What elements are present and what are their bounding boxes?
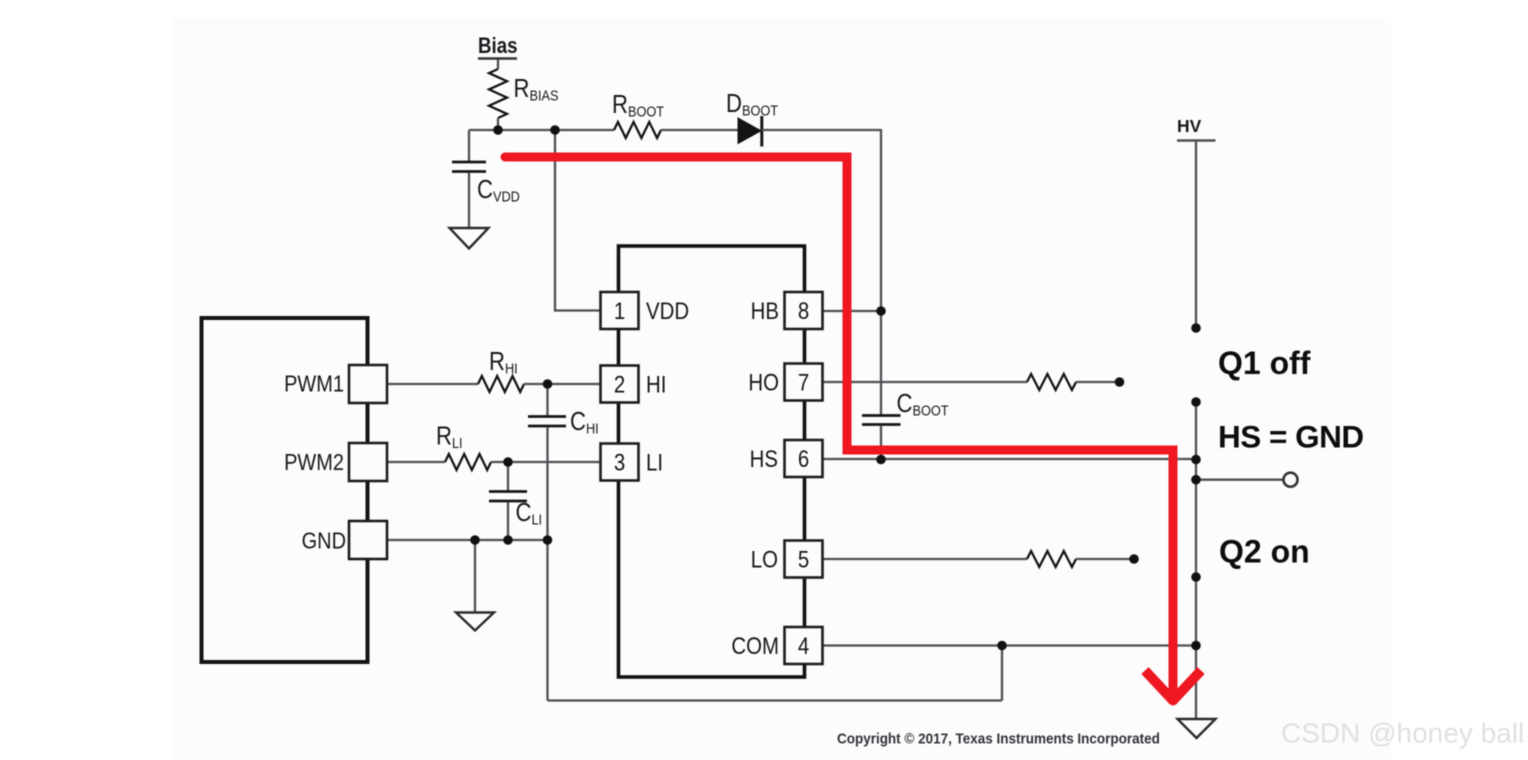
svg-text:3: 3 bbox=[614, 449, 625, 476]
svg-text:HO: HO bbox=[748, 369, 779, 396]
IC U1 body bbox=[619, 246, 805, 677]
svg-text:PWM2: PWM2 bbox=[284, 448, 344, 475]
node rail Q2 drain bbox=[1191, 572, 1201, 582]
resistor LO gate bbox=[1027, 551, 1076, 567]
node rail COM bbox=[1191, 641, 1201, 651]
svg-text:HI: HI bbox=[646, 371, 666, 398]
wire PWM2 to RLI bbox=[387, 461, 445, 463]
wire gnd stub bbox=[474, 540, 476, 613]
resistor RHI bbox=[478, 376, 524, 392]
node vdd branch bbox=[550, 125, 560, 135]
node CHI gnd bbox=[543, 535, 553, 545]
svg-text:Q1 off: Q1 off bbox=[1218, 345, 1311, 381]
wire HV rail upper bbox=[1195, 141, 1197, 329]
node rail SW bbox=[1191, 475, 1201, 485]
wire RHI to pin2 bbox=[524, 383, 601, 385]
node HI bbox=[543, 379, 553, 389]
capacitor CLI bbox=[507, 462, 509, 492]
capacitor CVDD bbox=[468, 130, 470, 162]
wire COM branch vertical bbox=[1001, 646, 1003, 701]
wire HB pin8 bbox=[823, 310, 882, 312]
wire bottom return bus y=700.5 bbox=[548, 699, 1003, 701]
svg-text:8: 8 bbox=[798, 297, 809, 324]
PWM1 box bbox=[349, 365, 387, 403]
pin box 1 bbox=[601, 292, 639, 329]
resistor HO gate bbox=[1027, 374, 1076, 390]
wire HB branch vertical bbox=[880, 129, 882, 416]
pin box 5 bbox=[785, 541, 823, 578]
left input block bbox=[202, 318, 368, 662]
wire diode to corner bbox=[762, 129, 882, 131]
svg-text:6: 6 bbox=[798, 445, 809, 472]
ground bottom right bbox=[1178, 719, 1216, 738]
red current path bbox=[505, 157, 1173, 694]
svg-text:2: 2 bbox=[614, 371, 625, 398]
pin box 6 bbox=[785, 440, 823, 477]
svg-text:CSDN @honey ball: CSDN @honey ball bbox=[1281, 718, 1524, 749]
node gnd stub bbox=[470, 535, 480, 545]
pin box 4 bbox=[785, 627, 823, 664]
wire GND row y=540 bbox=[387, 539, 548, 541]
wire top bus y=130 bbox=[469, 129, 614, 131]
svg-text:HV: HV bbox=[1177, 116, 1202, 136]
svg-text:5: 5 bbox=[798, 546, 809, 573]
node HB bbox=[876, 306, 886, 316]
svg-text:COM: COM bbox=[731, 632, 779, 659]
svg-text:HS = GND: HS = GND bbox=[1218, 419, 1364, 455]
wire Bias stub bbox=[497, 59, 499, 70]
wire HS pin6 bbox=[823, 458, 1197, 460]
resistor RBOOT bbox=[614, 122, 661, 138]
wire RLI to pin3 bbox=[491, 461, 601, 463]
wire LO pin5 bbox=[823, 558, 1028, 560]
wire COM pin4 bbox=[823, 644, 1197, 646]
svg-text:Q2 on: Q2 on bbox=[1219, 534, 1310, 570]
GND box bbox=[349, 521, 387, 559]
wire LO resistor to gate dot bbox=[1076, 558, 1134, 560]
svg-text:GND: GND bbox=[302, 527, 346, 554]
wire RBIAS to node bbox=[497, 118, 499, 130]
pin box 3 bbox=[601, 444, 639, 481]
resistor RLI bbox=[445, 454, 491, 470]
svg-text:Bias: Bias bbox=[478, 35, 517, 59]
ground under GND row bbox=[456, 613, 494, 631]
PWM2 box bbox=[349, 443, 387, 481]
svg-text:Copyright © 2017, Texas Instru: Copyright © 2017, Texas Instruments Inco… bbox=[837, 731, 1160, 748]
wire HO resistor to gate dot bbox=[1076, 381, 1120, 383]
ground under CVDD bbox=[450, 228, 489, 249]
svg-text:VDD: VDD bbox=[646, 297, 689, 324]
node rail Q1 source bbox=[1191, 397, 1201, 407]
capacitor CHI bbox=[546, 384, 548, 417]
HV terminal bar bbox=[1177, 139, 1216, 141]
wire VDD branch bbox=[555, 130, 601, 311]
image content background bbox=[174, 18, 1391, 760]
svg-text:7: 7 bbox=[798, 369, 809, 396]
wire RBOOT to diode bbox=[661, 129, 738, 131]
wire switch node to terminal bbox=[1196, 479, 1284, 481]
wire CHI down to gnd bus bbox=[546, 427, 548, 701]
svg-text:HB: HB bbox=[751, 297, 779, 324]
wire HO pin7 bbox=[823, 381, 1028, 383]
node CLI gnd bbox=[503, 535, 513, 545]
wire HV rail lower bbox=[1195, 646, 1197, 720]
pin box 8 bbox=[785, 292, 823, 329]
node LO gate bbox=[1129, 554, 1139, 564]
Bias terminal bar bbox=[478, 57, 517, 59]
node LI bbox=[503, 457, 513, 467]
pin box 2 bbox=[601, 366, 639, 403]
red arrowhead bbox=[1145, 671, 1201, 701]
node rail Q1 drain bbox=[1191, 323, 1201, 333]
wire HV rail mid bbox=[1195, 402, 1197, 646]
svg-text:PWM1: PWM1 bbox=[284, 370, 344, 397]
node bias junction bbox=[493, 125, 503, 135]
node CBOOT-HS bbox=[876, 455, 886, 465]
svg-text:4: 4 bbox=[798, 632, 809, 659]
svg-text:HS: HS bbox=[750, 445, 778, 472]
svg-text:1: 1 bbox=[614, 297, 625, 324]
resistor RBIAS bbox=[489, 69, 507, 118]
capacitor CBOOT bbox=[862, 414, 901, 417]
diode DBOOT bbox=[738, 118, 761, 144]
node COM branch bbox=[997, 641, 1007, 651]
node HO gate bbox=[1115, 377, 1125, 387]
svg-text:LI: LI bbox=[646, 449, 663, 476]
wire PWM1 to RHI bbox=[387, 383, 478, 385]
open terminal circle bbox=[1284, 473, 1298, 487]
pin box 7 bbox=[785, 364, 823, 401]
svg-text:LO: LO bbox=[751, 546, 778, 573]
node rail HS bbox=[1191, 455, 1201, 465]
